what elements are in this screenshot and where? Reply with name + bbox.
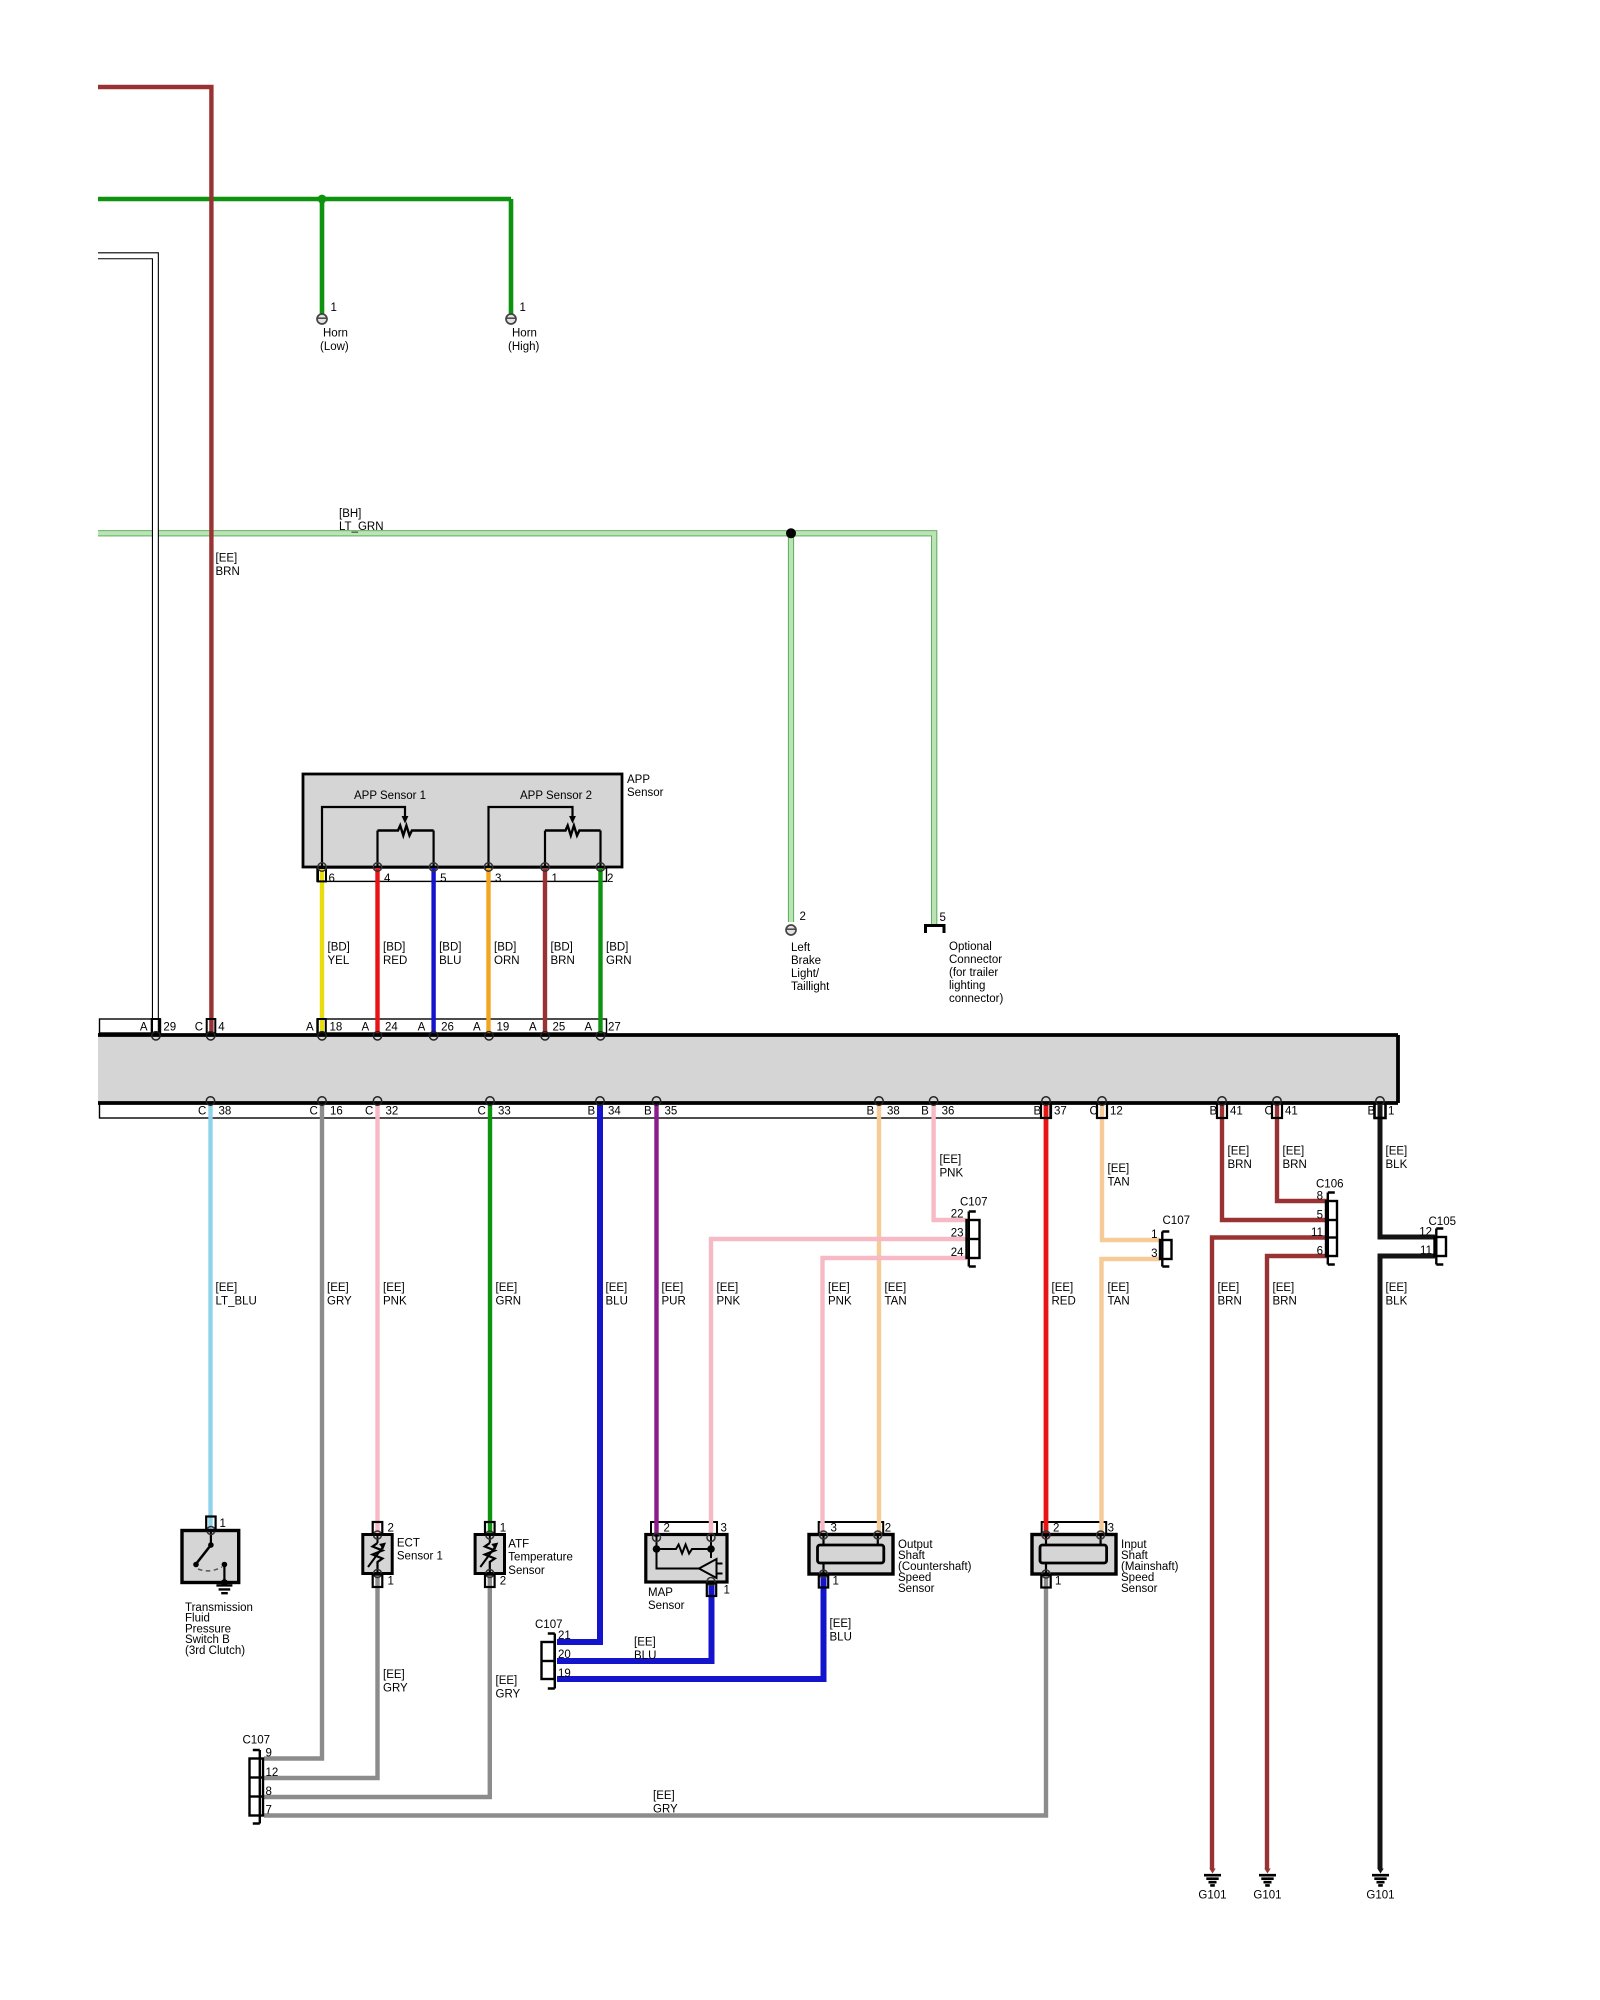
svg-text:GRY: GRY [653, 1804, 678, 1816]
svg-text:2: 2 [800, 911, 806, 923]
svg-text:[EE]: [EE] [885, 1282, 907, 1294]
svg-text:6: 6 [1317, 1246, 1323, 1258]
svg-text:Brake: Brake [791, 955, 821, 967]
svg-text:[EE]: [EE] [1228, 1146, 1250, 1158]
svg-text:3: 3 [1151, 1248, 1157, 1260]
svg-text:2: 2 [607, 873, 613, 885]
wire [EE] GRY input shaft pin1 to C107 pin7 [264, 1574, 1046, 1816]
svg-text:[BH]: [BH] [339, 508, 361, 520]
svg-text:GRY: GRY [327, 1296, 352, 1308]
ECT sensor body [363, 1535, 392, 1574]
svg-text:11: 11 [1420, 1245, 1432, 1257]
svg-text:26: 26 [441, 1022, 454, 1034]
svg-text:1: 1 [1388, 1106, 1394, 1118]
svg-text:[EE]: [EE] [940, 1154, 962, 1166]
svg-text:C: C [365, 1106, 373, 1118]
svg-text:[EE]: [EE] [496, 1282, 518, 1294]
MAP sensor body [646, 1535, 727, 1583]
svg-text:2: 2 [500, 1576, 506, 1588]
MAP sensor internals [646, 1523, 730, 1613]
svg-text:1: 1 [724, 1585, 730, 1597]
svg-text:C: C [478, 1106, 486, 1118]
svg-text:[EE]: [EE] [216, 1282, 238, 1294]
wire: horn supply green [98, 199, 511, 314]
output shaft sensor body [809, 1535, 893, 1575]
wire [EE] BRN B41 to C106 pin5 [1222, 1102, 1327, 1220]
MAP sensor strip [651, 1522, 717, 1535]
svg-text:TAN: TAN [1108, 1296, 1130, 1308]
svg-text:C: C [1090, 1106, 1098, 1118]
APP sensor box [303, 774, 622, 867]
wire [BD] BRN [543, 868, 547, 1036]
wire [EE] BRN C106 pin6 to G101 [1267, 1256, 1327, 1869]
svg-text:38: 38 [887, 1106, 900, 1118]
ground G101 (C106 pin11) [1209, 1869, 1215, 1874]
svg-text:C107: C107 [1163, 1215, 1191, 1227]
svg-text:A: A [140, 1022, 148, 1034]
svg-text:2: 2 [664, 1523, 670, 1535]
svg-text:C107: C107 [243, 1735, 271, 1747]
wire [BD] ORN [486, 868, 490, 1036]
svg-text:[EE]: [EE] [1108, 1282, 1130, 1294]
wire: [EE] BRN maroon to C4 [98, 87, 211, 1034]
svg-text:18: 18 [330, 1022, 343, 1034]
svg-text:lighting: lighting [949, 980, 985, 992]
ATF temperature sensor [475, 1522, 573, 1588]
horn (high) terminal [506, 302, 539, 353]
svg-text:6: 6 [329, 873, 335, 885]
APP sensor 2 potentiometer [489, 807, 573, 866]
wire [BD] GRN [598, 868, 602, 1036]
wire [BD] YEL [320, 868, 324, 1036]
output shaft (countershaft) speed sensor [809, 1523, 972, 1596]
wire [EE] PUR B35 to MAP pin2 [654, 1102, 658, 1537]
svg-text:LT_BLU: LT_BLU [216, 1296, 257, 1308]
svg-text:[EE]: [EE] [828, 1282, 850, 1294]
svg-text:Optional: Optional [949, 941, 992, 953]
svg-text:connector): connector) [949, 993, 1004, 1005]
svg-text:C106: C106 [1316, 1179, 1344, 1191]
PCM bar edges [98, 1035, 1398, 1103]
svg-text:[EE]: [EE] [383, 1282, 405, 1294]
svg-text:MAP: MAP [648, 1587, 673, 1599]
svg-text:B: B [1034, 1106, 1042, 1118]
svg-text:(High): (High) [508, 341, 539, 353]
svg-text:Connector: Connector [949, 954, 1002, 966]
PCM module bar body [98, 1035, 1398, 1103]
svg-text:C: C [1265, 1106, 1273, 1118]
svg-text:[EE]: [EE] [216, 553, 238, 565]
pin box A18 [318, 1019, 326, 1033]
svg-text:[EE]: [EE] [606, 1282, 628, 1294]
wire [EE] GRY ATF pin2 to C107 pin8 [264, 1573, 490, 1797]
wire [EE] BLU MAP pin1 to C107 pin20 [557, 1581, 712, 1661]
svg-text:37: 37 [1054, 1106, 1067, 1118]
svg-text:1: 1 [331, 302, 337, 314]
svg-text:BRN: BRN [1218, 1296, 1242, 1308]
transmission fluid pressure switch internals [182, 1517, 253, 1657]
svg-text:36: 36 [942, 1106, 955, 1118]
svg-text:B: B [867, 1106, 875, 1118]
svg-text:25: 25 [553, 1022, 566, 1034]
svg-text:[BD]: [BD] [439, 942, 461, 954]
svg-text:A: A [529, 1022, 537, 1034]
svg-text:20: 20 [558, 1649, 571, 1661]
svg-text:2: 2 [885, 1523, 891, 1535]
svg-text:24: 24 [385, 1022, 398, 1034]
svg-text:4: 4 [384, 873, 391, 885]
svg-text:3: 3 [721, 1523, 727, 1535]
svg-text:RED: RED [383, 955, 407, 967]
svg-text:B: B [921, 1106, 929, 1118]
svg-text:7: 7 [266, 1805, 272, 1817]
svg-text:[EE]: [EE] [1273, 1282, 1295, 1294]
svg-text:PUR: PUR [662, 1296, 686, 1308]
wire [EE] PNK C107 pin24 to output shaft pin3 [823, 1258, 967, 1537]
wire: [BH] LT_GRN light green [98, 533, 934, 925]
svg-text:3: 3 [831, 1523, 837, 1535]
svg-text:ECT: ECT [397, 1538, 420, 1550]
svg-text:[EE]: [EE] [634, 1637, 656, 1649]
svg-text:TAN: TAN [1108, 1177, 1130, 1189]
wire [EE] GRY ECT pin1 to C107 pin12 [264, 1573, 378, 1778]
svg-text:[BD]: [BD] [606, 942, 628, 954]
svg-text:(3rd Clutch): (3rd Clutch) [185, 1645, 245, 1657]
svg-text:BRN: BRN [1273, 1296, 1297, 1308]
ground G101 (C105 pin11) [1377, 1869, 1383, 1874]
svg-text:12: 12 [266, 1767, 279, 1779]
wire [EE] GRY C16 to C107 pin9 [264, 1102, 322, 1759]
svg-text:BRN: BRN [1283, 1159, 1307, 1171]
junction dot LT_GRN [786, 528, 796, 538]
junction dot horn wire [318, 195, 327, 204]
svg-text:5: 5 [940, 912, 946, 924]
svg-text:24: 24 [951, 1247, 964, 1259]
left brake light terminal [786, 911, 830, 993]
svg-text:Sensor 1: Sensor 1 [397, 1551, 443, 1563]
svg-text:22: 22 [951, 1209, 964, 1221]
svg-text:19: 19 [558, 1668, 571, 1680]
svg-text:BLU: BLU [830, 1632, 852, 1644]
wire [EE] BLK B1 to C105 pin12 [1380, 1102, 1435, 1237]
svg-text:BLU: BLU [439, 955, 461, 967]
svg-text:[EE]: [EE] [1386, 1282, 1408, 1294]
wire: white wire to A29 [98, 256, 155, 1034]
svg-text:5: 5 [440, 873, 446, 885]
svg-text:2: 2 [1053, 1523, 1059, 1535]
svg-text:1: 1 [1151, 1229, 1157, 1241]
svg-text:C: C [310, 1106, 318, 1118]
ground G101 (C106 pin6) [1264, 1869, 1270, 1874]
transmission fluid pressure switch body [182, 1531, 239, 1583]
svg-text:8: 8 [266, 1786, 272, 1798]
svg-text:Sensor: Sensor [898, 1583, 935, 1595]
svg-text:B: B [644, 1106, 652, 1118]
wire [EE] BRN C106 pin11 to G101 [1212, 1238, 1327, 1870]
svg-text:APP: APP [627, 774, 650, 786]
svg-text:A: A [362, 1022, 370, 1034]
wire [EE] TAN C12 to C107 pin1 [1102, 1102, 1160, 1240]
wire [EE] TAN C107 pin3 to input shaft pin3 [1102, 1259, 1161, 1537]
wire [EE] PNK B36 to C107 pin22 [934, 1102, 967, 1220]
svg-text:9: 9 [266, 1748, 272, 1760]
svg-text:34: 34 [608, 1106, 621, 1118]
svg-text:BLU: BLU [606, 1296, 628, 1308]
svg-text:Light/: Light/ [791, 968, 820, 980]
horn (low) terminal [317, 302, 349, 353]
svg-text:[EE]: [EE] [496, 1675, 518, 1687]
svg-text:29: 29 [163, 1022, 176, 1034]
svg-text:33: 33 [498, 1106, 511, 1118]
svg-text:ATF: ATF [508, 1538, 529, 1550]
svg-text:1: 1 [500, 1523, 506, 1535]
pin box A29 [152, 1019, 160, 1033]
svg-text:(Low): (Low) [320, 341, 349, 353]
output shaft sensor strip [819, 1522, 884, 1535]
svg-text:Sensor: Sensor [648, 1600, 685, 1612]
svg-text:BRN: BRN [551, 955, 575, 967]
svg-text:APP Sensor 2: APP Sensor 2 [520, 790, 592, 802]
svg-text:BLU: BLU [634, 1650, 656, 1662]
svg-text:5: 5 [1317, 1210, 1323, 1222]
connector C105 [1419, 1216, 1456, 1265]
svg-text:PNK: PNK [383, 1296, 407, 1308]
wire [EE] BLU output shaft pin1 to C107 pin19 [557, 1574, 824, 1679]
wire [EE] PNK C32 to ECT pin2 [375, 1102, 379, 1536]
svg-text:APP Sensor 1: APP Sensor 1 [354, 790, 426, 802]
APP pin circles [318, 863, 326, 871]
svg-text:(for trailer: (for trailer [949, 967, 998, 979]
APP sensor 1 potentiometer [322, 807, 405, 866]
svg-text:[EE]: [EE] [1108, 1163, 1130, 1175]
svg-text:12: 12 [1419, 1227, 1432, 1239]
svg-text:C105: C105 [1429, 1216, 1457, 1228]
connector C106 [1311, 1179, 1343, 1265]
svg-text:[EE]: [EE] [653, 1790, 675, 1802]
svg-text:BLK: BLK [1386, 1296, 1408, 1308]
svg-text:B: B [1368, 1106, 1376, 1118]
wire [EE] BLU B34 to C107 pin21 [557, 1102, 600, 1642]
svg-text:2: 2 [388, 1523, 394, 1535]
svg-text:38: 38 [219, 1106, 232, 1118]
optional connector (trailer) symbol [926, 912, 1004, 1005]
svg-text:[EE]: [EE] [830, 1618, 852, 1630]
input shaft sensor body [1032, 1535, 1116, 1575]
svg-text:Sensor: Sensor [1121, 1583, 1158, 1595]
svg-text:[EE]: [EE] [383, 1669, 405, 1681]
svg-text:LT_GRN: LT_GRN [339, 521, 384, 533]
svg-text:[EE]: [EE] [662, 1282, 684, 1294]
svg-text:3: 3 [1108, 1523, 1114, 1535]
svg-text:[EE]: [EE] [1218, 1282, 1240, 1294]
svg-text:Temperature: Temperature [508, 1552, 573, 1564]
svg-text:GRY: GRY [496, 1689, 521, 1701]
ATF sensor body [475, 1535, 504, 1574]
APP connector strip [317, 868, 607, 881]
svg-text:PNK: PNK [940, 1168, 964, 1180]
pin box C4 [207, 1019, 216, 1033]
PCM top connector strip (APP pins) [317, 1019, 607, 1033]
svg-text:C: C [198, 1106, 206, 1118]
svg-text:ORN: ORN [494, 955, 520, 967]
svg-text:12: 12 [1110, 1106, 1123, 1118]
svg-text:G101: G101 [1198, 1890, 1226, 1902]
svg-text:GRN: GRN [606, 955, 632, 967]
svg-text:[EE]: [EE] [717, 1282, 739, 1294]
svg-text:35: 35 [665, 1106, 678, 1118]
svg-text:[EE]: [EE] [327, 1282, 349, 1294]
bottom strip pin boxes [1041, 1103, 1051, 1118]
svg-text:[BD]: [BD] [383, 942, 405, 954]
svg-text:27: 27 [608, 1022, 621, 1034]
svg-text:11: 11 [1311, 1227, 1323, 1239]
wire [EE] RED B37 to input shaft pin2 [1044, 1102, 1049, 1537]
svg-text:A: A [306, 1022, 314, 1034]
svg-text:1: 1 [388, 1576, 394, 1588]
svg-text:1: 1 [552, 873, 558, 885]
svg-text:[BD]: [BD] [328, 942, 350, 954]
wire [EE] PNK C107 pin23 to MAP pin3 [711, 1239, 967, 1537]
svg-text:B: B [588, 1106, 596, 1118]
wire [EE] TAN B38 to output shaft pin2 [877, 1102, 881, 1537]
svg-text:G101: G101 [1366, 1890, 1394, 1902]
svg-text:YEL: YEL [328, 955, 350, 967]
svg-text:C107: C107 [960, 1197, 988, 1209]
svg-text:GRN: GRN [496, 1296, 522, 1308]
svg-text:PNK: PNK [828, 1296, 852, 1308]
svg-text:41: 41 [1285, 1106, 1298, 1118]
wire [EE] LT_BLU C38 to pressure switch [208, 1102, 212, 1531]
svg-text:8: 8 [1317, 1191, 1323, 1203]
svg-text:A: A [473, 1022, 481, 1034]
PCM bottom connector strip [100, 1103, 1051, 1118]
svg-text:1: 1 [1055, 1576, 1061, 1588]
svg-text:3: 3 [495, 873, 501, 885]
input shaft sensor strip [1042, 1522, 1107, 1535]
connector C107 pins 9 12 8 7 [243, 1735, 279, 1824]
svg-text:A: A [585, 1022, 593, 1034]
connector C107 pins 1 3 [1151, 1215, 1190, 1267]
svg-text:Horn: Horn [512, 328, 537, 340]
svg-text:BRN: BRN [1228, 1159, 1252, 1171]
svg-text:Sensor: Sensor [627, 787, 664, 799]
wire [BD] RED [375, 868, 379, 1036]
svg-text:Left: Left [791, 942, 811, 954]
svg-text:PNK: PNK [717, 1296, 741, 1308]
connector C107 pins 21 20 19 [535, 1619, 571, 1689]
svg-text:[BD]: [BD] [494, 942, 516, 954]
svg-text:G101: G101 [1253, 1890, 1281, 1902]
input shaft (mainshaft) speed sensor [1032, 1523, 1179, 1596]
svg-text:41: 41 [1230, 1106, 1243, 1118]
connector C107 pins 22 23 24 [951, 1197, 988, 1267]
svg-text:A: A [418, 1022, 426, 1034]
svg-text:B: B [1210, 1106, 1218, 1118]
svg-text:1: 1 [833, 1576, 839, 1588]
PCM top connector strip (A29) [100, 1019, 161, 1033]
svg-text:Sensor: Sensor [508, 1565, 545, 1577]
svg-text:Taillight: Taillight [791, 981, 830, 993]
svg-text:16: 16 [330, 1106, 343, 1118]
svg-text:23: 23 [951, 1228, 964, 1240]
wire [BD] BLU [431, 868, 435, 1036]
wire [EE] GRN C33 to ATF pin1 [488, 1102, 492, 1536]
svg-text:1: 1 [520, 302, 526, 314]
svg-text:32: 32 [386, 1106, 399, 1118]
svg-text:[BD]: [BD] [551, 942, 573, 954]
svg-text:[EE]: [EE] [1052, 1282, 1074, 1294]
svg-text:GRY: GRY [383, 1683, 408, 1695]
svg-text:BRN: BRN [216, 566, 240, 578]
svg-text:[EE]: [EE] [1283, 1146, 1305, 1158]
svg-text:4: 4 [218, 1022, 225, 1034]
svg-text:[EE]: [EE] [1386, 1146, 1408, 1158]
svg-text:1: 1 [220, 1518, 226, 1530]
APP pin 6 box [318, 868, 326, 881]
ECT sensor 1 [363, 1522, 443, 1588]
wire [EE] BLK C105 pin11 to G101 [1380, 1256, 1435, 1869]
svg-text:19: 19 [497, 1022, 510, 1034]
svg-text:BLK: BLK [1386, 1159, 1408, 1171]
svg-text:TAN: TAN [885, 1296, 907, 1308]
svg-text:21: 21 [558, 1630, 571, 1642]
svg-text:C: C [195, 1022, 203, 1034]
svg-text:Horn: Horn [323, 328, 348, 340]
wire [EE] BRN C41 to C106 pin8 [1277, 1102, 1327, 1201]
svg-text:RED: RED [1052, 1296, 1076, 1308]
